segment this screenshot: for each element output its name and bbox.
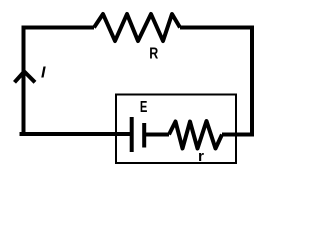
resistor r (169, 121, 222, 149)
battery short plate (142, 123, 146, 148)
wire: battery to resistor r (144, 133, 169, 137)
wire: left side and top-left run to resistor R (24, 28, 132, 135)
wire: top-right run, right side, bottom-right to cell box (180, 28, 252, 135)
resistor R (94, 14, 180, 41)
svg-text:R: R (149, 46, 158, 63)
svg-text:I: I (41, 65, 46, 82)
wire: bottom-left corner stub (20, 132, 25, 136)
current arrow head (15, 72, 36, 83)
svg-text:r: r (198, 148, 204, 165)
battery long plate (130, 117, 134, 152)
battery box (116, 95, 236, 164)
svg-text:E: E (140, 99, 148, 116)
